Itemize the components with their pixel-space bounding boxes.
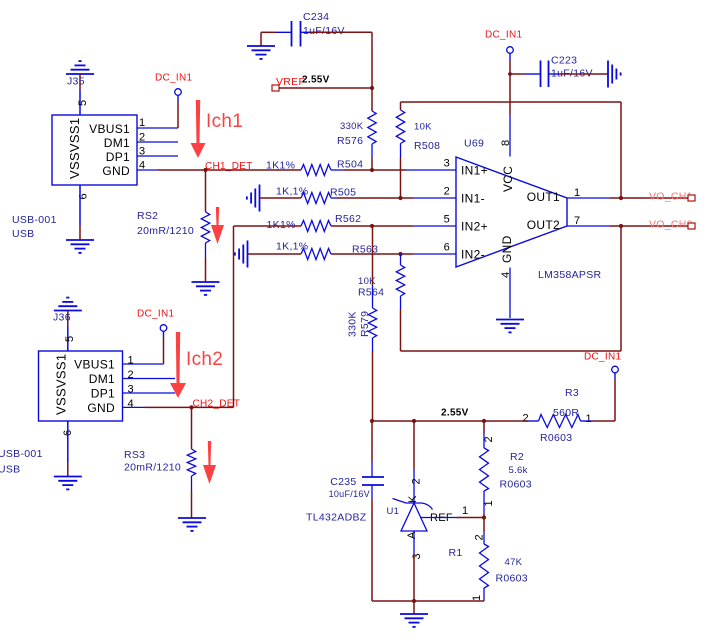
- svg-text:VREF: VREF: [276, 76, 305, 88]
- wire C234 left to ground: [261, 32, 292, 46]
- svg-text:R3: R3: [565, 387, 579, 399]
- pin 2 label R1: [474, 534, 486, 540]
- value 330K R579 (rotated): [347, 311, 359, 337]
- svg-text:R0603: R0603: [496, 573, 528, 585]
- connector J36 comment: [0, 448, 43, 476]
- resistor RS3: [124, 449, 196, 476]
- pin 6 wire + ground J35: [66, 185, 94, 253]
- wire CH2 riser to R562: [234, 225, 302, 227]
- svg-text:IN2-: IN2-: [461, 248, 485, 262]
- ground below op-amp: [496, 320, 524, 333]
- svg-text:LM358APSR: LM358APSR: [538, 269, 602, 281]
- svg-text:1K,1%: 1K,1%: [276, 241, 308, 253]
- svg-text:VBUS1: VBUS1: [89, 122, 130, 136]
- svg-text:10K: 10K: [358, 276, 376, 287]
- pin 2 label U1: [411, 478, 423, 484]
- svg-text:TL432ADBZ: TL432ADBZ: [306, 512, 367, 524]
- value 1K1% R562: [267, 219, 296, 231]
- value 10K R508: [414, 122, 432, 133]
- svg-text:K: K: [407, 495, 419, 503]
- junction R564/pin6 row: [398, 252, 402, 256]
- svg-text:DC_IN1: DC_IN1: [155, 73, 193, 84]
- wire R504 to IN1+: [331, 169, 456, 171]
- resistor R562: [301, 213, 361, 232]
- svg-text:VO_CH2: VO_CH2: [649, 219, 693, 231]
- pin K label U1: [407, 495, 419, 503]
- labels R1: [449, 547, 528, 585]
- value 1K1% R504: [266, 160, 295, 172]
- annotation arrow Ich2: [170, 332, 186, 398]
- svg-text:R0603: R0603: [500, 479, 532, 491]
- svg-text:1K1%: 1K1%: [267, 219, 296, 231]
- connector J35 designator: [67, 76, 85, 88]
- junction CH1_DET/RS2: [203, 168, 207, 172]
- svg-text:20mR/1210: 20mR/1210: [137, 225, 194, 237]
- wire CH1_DET to RS2: [205, 170, 207, 212]
- resistor R505: [301, 187, 356, 204]
- wire 2.55V rail: [372, 420, 539, 422]
- svg-text:3: 3: [444, 158, 450, 170]
- annotation arrow small (RS3 current): [203, 441, 216, 484]
- wire R563 to IN2-: [331, 253, 456, 255]
- ground below RS2: [192, 282, 220, 295]
- op-amp U69 body: [456, 157, 567, 267]
- op-amp U69 comment: [538, 269, 602, 281]
- resistor R504: [301, 159, 363, 176]
- svg-text:1uF/16V: 1uF/16V: [303, 25, 345, 37]
- junction R576/pin3 row: [370, 168, 374, 172]
- wire C223 to ground: [549, 73, 609, 75]
- svg-text:R562: R562: [335, 213, 361, 225]
- svg-text:GND: GND: [87, 401, 115, 415]
- pin 2 DM1 J36: [89, 369, 175, 386]
- annotation label Ich1: [206, 111, 243, 132]
- svg-text:2: 2: [411, 478, 423, 484]
- capacitor C235: [329, 476, 384, 499]
- svg-text:R579: R579: [359, 311, 371, 337]
- pin 1 VBUS1 J35: [89, 117, 178, 136]
- comment TL432ADBZ: [306, 512, 367, 524]
- junction R579/pin5 row: [370, 224, 374, 228]
- svg-text:U69: U69: [464, 138, 484, 150]
- svg-text:R1: R1: [449, 547, 463, 559]
- svg-text:47K: 47K: [505, 557, 523, 568]
- svg-text:USB: USB: [0, 464, 21, 476]
- wire VREF: [279, 87, 372, 89]
- port square VO_CH1: [688, 195, 695, 201]
- svg-text:USB: USB: [12, 228, 35, 240]
- pin 1 label R1: [471, 595, 483, 601]
- pin 7 OUT2: [527, 215, 610, 232]
- pin 2 DM1 J35: [104, 132, 178, 151]
- pin 4 GND: [500, 235, 514, 318]
- svg-text:10uF/16V: 10uF/16V: [329, 489, 370, 499]
- junction CH2_DET/RS3: [189, 405, 193, 409]
- svg-text:DC_IN1: DC_IN1: [485, 30, 523, 41]
- resistor R1: [480, 518, 489, 602]
- svg-text:RS2: RS2: [137, 210, 158, 222]
- power port DC_IN1 (R3): [584, 352, 622, 422]
- svg-text:J36: J36: [53, 312, 71, 324]
- svg-text:J35: J35: [67, 76, 85, 88]
- power port DC_IN1 (VCC): [485, 30, 523, 115]
- svg-text:2.55V: 2.55V: [302, 75, 330, 86]
- svg-text:2: 2: [523, 413, 529, 425]
- svg-text:5.6k: 5.6k: [509, 465, 528, 476]
- svg-text:DM1: DM1: [89, 372, 115, 386]
- resistor R3: [523, 387, 616, 444]
- svg-text:2: 2: [444, 186, 450, 198]
- net label VO_CH2: [649, 219, 693, 231]
- op-amp U69 designator: [464, 138, 484, 150]
- pin A label U1: [406, 531, 418, 539]
- svg-text:10K: 10K: [414, 122, 432, 133]
- designator U1: [387, 506, 400, 517]
- wire gnd to R505: [260, 197, 302, 199]
- svg-text:VSSVSS1: VSSVSS1: [67, 118, 82, 179]
- value 10K R564: [358, 276, 376, 287]
- value 2.55V (rail): [441, 408, 469, 419]
- annotation arrow small (RS2 current): [211, 207, 224, 244]
- svg-text:DC_IN1: DC_IN1: [137, 309, 175, 320]
- pin 1 label R2: [483, 500, 495, 506]
- resistor RS2: [137, 210, 210, 243]
- wire gnd to R563: [248, 253, 302, 255]
- pin 6 IN2-: [444, 242, 485, 262]
- svg-text:5: 5: [77, 100, 89, 106]
- capacitor C234: [292, 11, 345, 47]
- pin 6 label J36: [62, 430, 74, 436]
- svg-text:330K: 330K: [340, 121, 364, 132]
- net label CH1_DET: [205, 161, 253, 172]
- pin 5 IN2+: [444, 214, 488, 234]
- net label CH2_DET: [193, 399, 241, 410]
- wire U1 anode to rail: [413, 531, 415, 601]
- svg-text:1: 1: [483, 500, 495, 506]
- connector J35 ground (top, inverted earth): [66, 61, 94, 115]
- svg-text:560R: 560R: [553, 407, 579, 419]
- svg-text:20mR/1210: 20mR/1210: [124, 462, 181, 474]
- svg-text:2.55V: 2.55V: [441, 408, 469, 419]
- svg-text:VBUS1: VBUS1: [74, 357, 115, 371]
- svg-text:OUT1: OUT1: [527, 190, 560, 204]
- pin 3 DP1 J35: [106, 146, 178, 165]
- wire OUT1 to port: [610, 197, 688, 199]
- svg-text:IN2+: IN2+: [461, 220, 488, 234]
- svg-text:C234: C234: [303, 11, 329, 23]
- designator R579 (rotated): [359, 311, 371, 337]
- svg-text:1: 1: [586, 413, 592, 425]
- svg-text:VO_CH1: VO_CH1: [649, 191, 693, 203]
- svg-text:C223: C223: [551, 55, 577, 67]
- svg-text:3: 3: [128, 384, 134, 396]
- junction bottom rail: [412, 599, 416, 603]
- ground right of C223: [608, 61, 621, 88]
- pin 3 DP1 J36: [91, 384, 175, 401]
- annotation label Ich2: [186, 349, 223, 370]
- pin 3 IN1+: [444, 158, 488, 178]
- pin 5 label J36: [64, 336, 76, 342]
- svg-text:R2: R2: [510, 451, 524, 463]
- wire rail to C235: [371, 421, 373, 477]
- power port DC_IN1 (USB1): [155, 73, 193, 129]
- net label VO_CH1: [649, 191, 693, 203]
- wire to C223: [510, 73, 541, 75]
- svg-text:USB-001: USB-001: [0, 448, 43, 460]
- value 2.55V (VREF): [302, 75, 330, 86]
- junction rail/U1: [412, 419, 416, 423]
- annotation arrow Ich1: [191, 100, 206, 158]
- svg-text:U1: U1: [387, 506, 400, 517]
- svg-text:DP1: DP1: [91, 386, 115, 400]
- pin 1 VBUS1 J36: [74, 354, 163, 371]
- svg-text:R564: R564: [358, 287, 384, 299]
- svg-text:330K: 330K: [347, 311, 359, 337]
- pin 6 wire + ground J36: [54, 421, 82, 489]
- svg-text:1: 1: [471, 595, 483, 601]
- svg-text:1: 1: [462, 505, 468, 517]
- connector J35 comment: [12, 214, 57, 240]
- pin 4 GND J35: [102, 160, 158, 179]
- svg-text:VSSVSS1: VSSVSS1: [54, 354, 69, 415]
- resistor R2: [480, 421, 489, 518]
- svg-text:R576: R576: [337, 135, 363, 147]
- svg-text:DC_IN1: DC_IN1: [584, 352, 622, 363]
- wire rail to U1 cathode: [413, 421, 415, 503]
- net label VREF: [276, 76, 305, 88]
- power port DC_IN1 (USB2): [137, 309, 175, 365]
- svg-text:4: 4: [128, 398, 134, 410]
- svg-text:VCC: VCC: [501, 166, 515, 192]
- svg-text:3: 3: [411, 553, 423, 559]
- connector J36 ground (top, inverted earth): [54, 298, 82, 351]
- wire RS3 to ground: [191, 476, 193, 518]
- svg-text:5: 5: [444, 214, 450, 226]
- svg-text:DP1: DP1: [106, 150, 130, 164]
- svg-text:IN1+: IN1+: [461, 164, 488, 178]
- svg-text:RS3: RS3: [124, 449, 145, 461]
- pin 2 IN1-: [444, 186, 485, 206]
- svg-text:GND: GND: [500, 235, 514, 263]
- wire OUT2 to port: [610, 225, 688, 227]
- resistor R563: [301, 244, 378, 260]
- value 1K,1% R505: [276, 186, 308, 198]
- wire CH2_DET riser: [233, 226, 235, 407]
- svg-text:2: 2: [483, 436, 495, 442]
- svg-text:R0603: R0603: [540, 432, 572, 444]
- junction DC_IN1/C223: [508, 72, 512, 76]
- wire CH1_DET row: [158, 169, 301, 171]
- wire OUT1 feedback rail: [401, 102, 622, 198]
- svg-text:R504: R504: [337, 159, 363, 171]
- wire CH2_DET row: [145, 406, 234, 408]
- resistor R579: [368, 226, 376, 421]
- resistor R576: [337, 88, 376, 170]
- svg-text:1: 1: [574, 187, 580, 199]
- svg-text:R508: R508: [414, 140, 440, 152]
- junction rail/R2: [482, 419, 486, 423]
- svg-text:Ich1: Ich1: [206, 111, 243, 132]
- wire R562 to IN2+: [331, 225, 456, 227]
- svg-text:OUT2: OUT2: [527, 218, 560, 232]
- shunt reference U1 symbol: [393, 499, 433, 532]
- svg-text:7: 7: [574, 215, 580, 227]
- ground below RS3: [178, 518, 206, 531]
- ground at R563: [235, 241, 248, 268]
- port square VREF: [272, 85, 279, 91]
- pin 1 OUT1: [527, 187, 610, 204]
- svg-text:R505: R505: [330, 187, 356, 199]
- connector J36 designator: [53, 312, 71, 324]
- svg-text:A: A: [406, 531, 418, 539]
- pin 3 label U1: [411, 553, 423, 559]
- pin REF U1: [421, 505, 485, 524]
- svg-text:Ich2: Ich2: [186, 349, 223, 370]
- value 330K R576: [340, 121, 364, 132]
- svg-text:DM1: DM1: [104, 136, 130, 150]
- pin 5 label J35: [77, 100, 89, 106]
- svg-text:6: 6: [444, 242, 450, 254]
- junction VREF/R576: [370, 86, 374, 90]
- labels R2: [500, 451, 532, 491]
- ground bottom: [400, 601, 428, 627]
- pin 2 label R2: [483, 436, 495, 442]
- pin 6 label J35: [78, 193, 90, 199]
- wire bottom rail: [372, 600, 484, 602]
- wire RS2 to ground: [205, 243, 207, 282]
- svg-text:5: 5: [64, 336, 76, 342]
- svg-text:2: 2: [128, 369, 134, 381]
- svg-text:USB-001: USB-001: [12, 214, 57, 226]
- pin 8 VCC: [500, 115, 515, 193]
- wire C235 to bottom rail: [371, 485, 373, 601]
- svg-text:IN1-: IN1-: [461, 192, 485, 206]
- svg-text:1: 1: [139, 117, 145, 129]
- svg-text:1K1%: 1K1%: [266, 160, 295, 172]
- port square VO_CH2: [688, 223, 695, 229]
- connector J36 body: [39, 351, 123, 421]
- wire C234 right to VREF rail: [301, 32, 373, 88]
- junction REF/divider: [482, 515, 486, 519]
- junction rail/R579: [370, 419, 374, 423]
- svg-text:C235: C235: [330, 476, 356, 488]
- ground below C234 left: [247, 46, 275, 59]
- wire CH2_DET to RS3: [191, 407, 193, 449]
- wire R505 to IN1-: [331, 197, 456, 199]
- wire OUT2 feedback rail: [401, 226, 622, 351]
- svg-text:GND: GND: [102, 164, 130, 178]
- value 1K,1% R563: [276, 241, 308, 253]
- capacitor C223: [541, 55, 593, 88]
- junction OUT1/rail: [619, 196, 623, 200]
- ground at R505: [247, 185, 260, 212]
- pin 4 GND J36: [87, 398, 145, 415]
- resistor R508: [396, 102, 440, 198]
- junction OUT2/rail: [619, 224, 623, 228]
- junction R508/pin2 row: [398, 196, 402, 200]
- connector J35 body: [52, 115, 137, 185]
- resistor R564: [358, 254, 405, 351]
